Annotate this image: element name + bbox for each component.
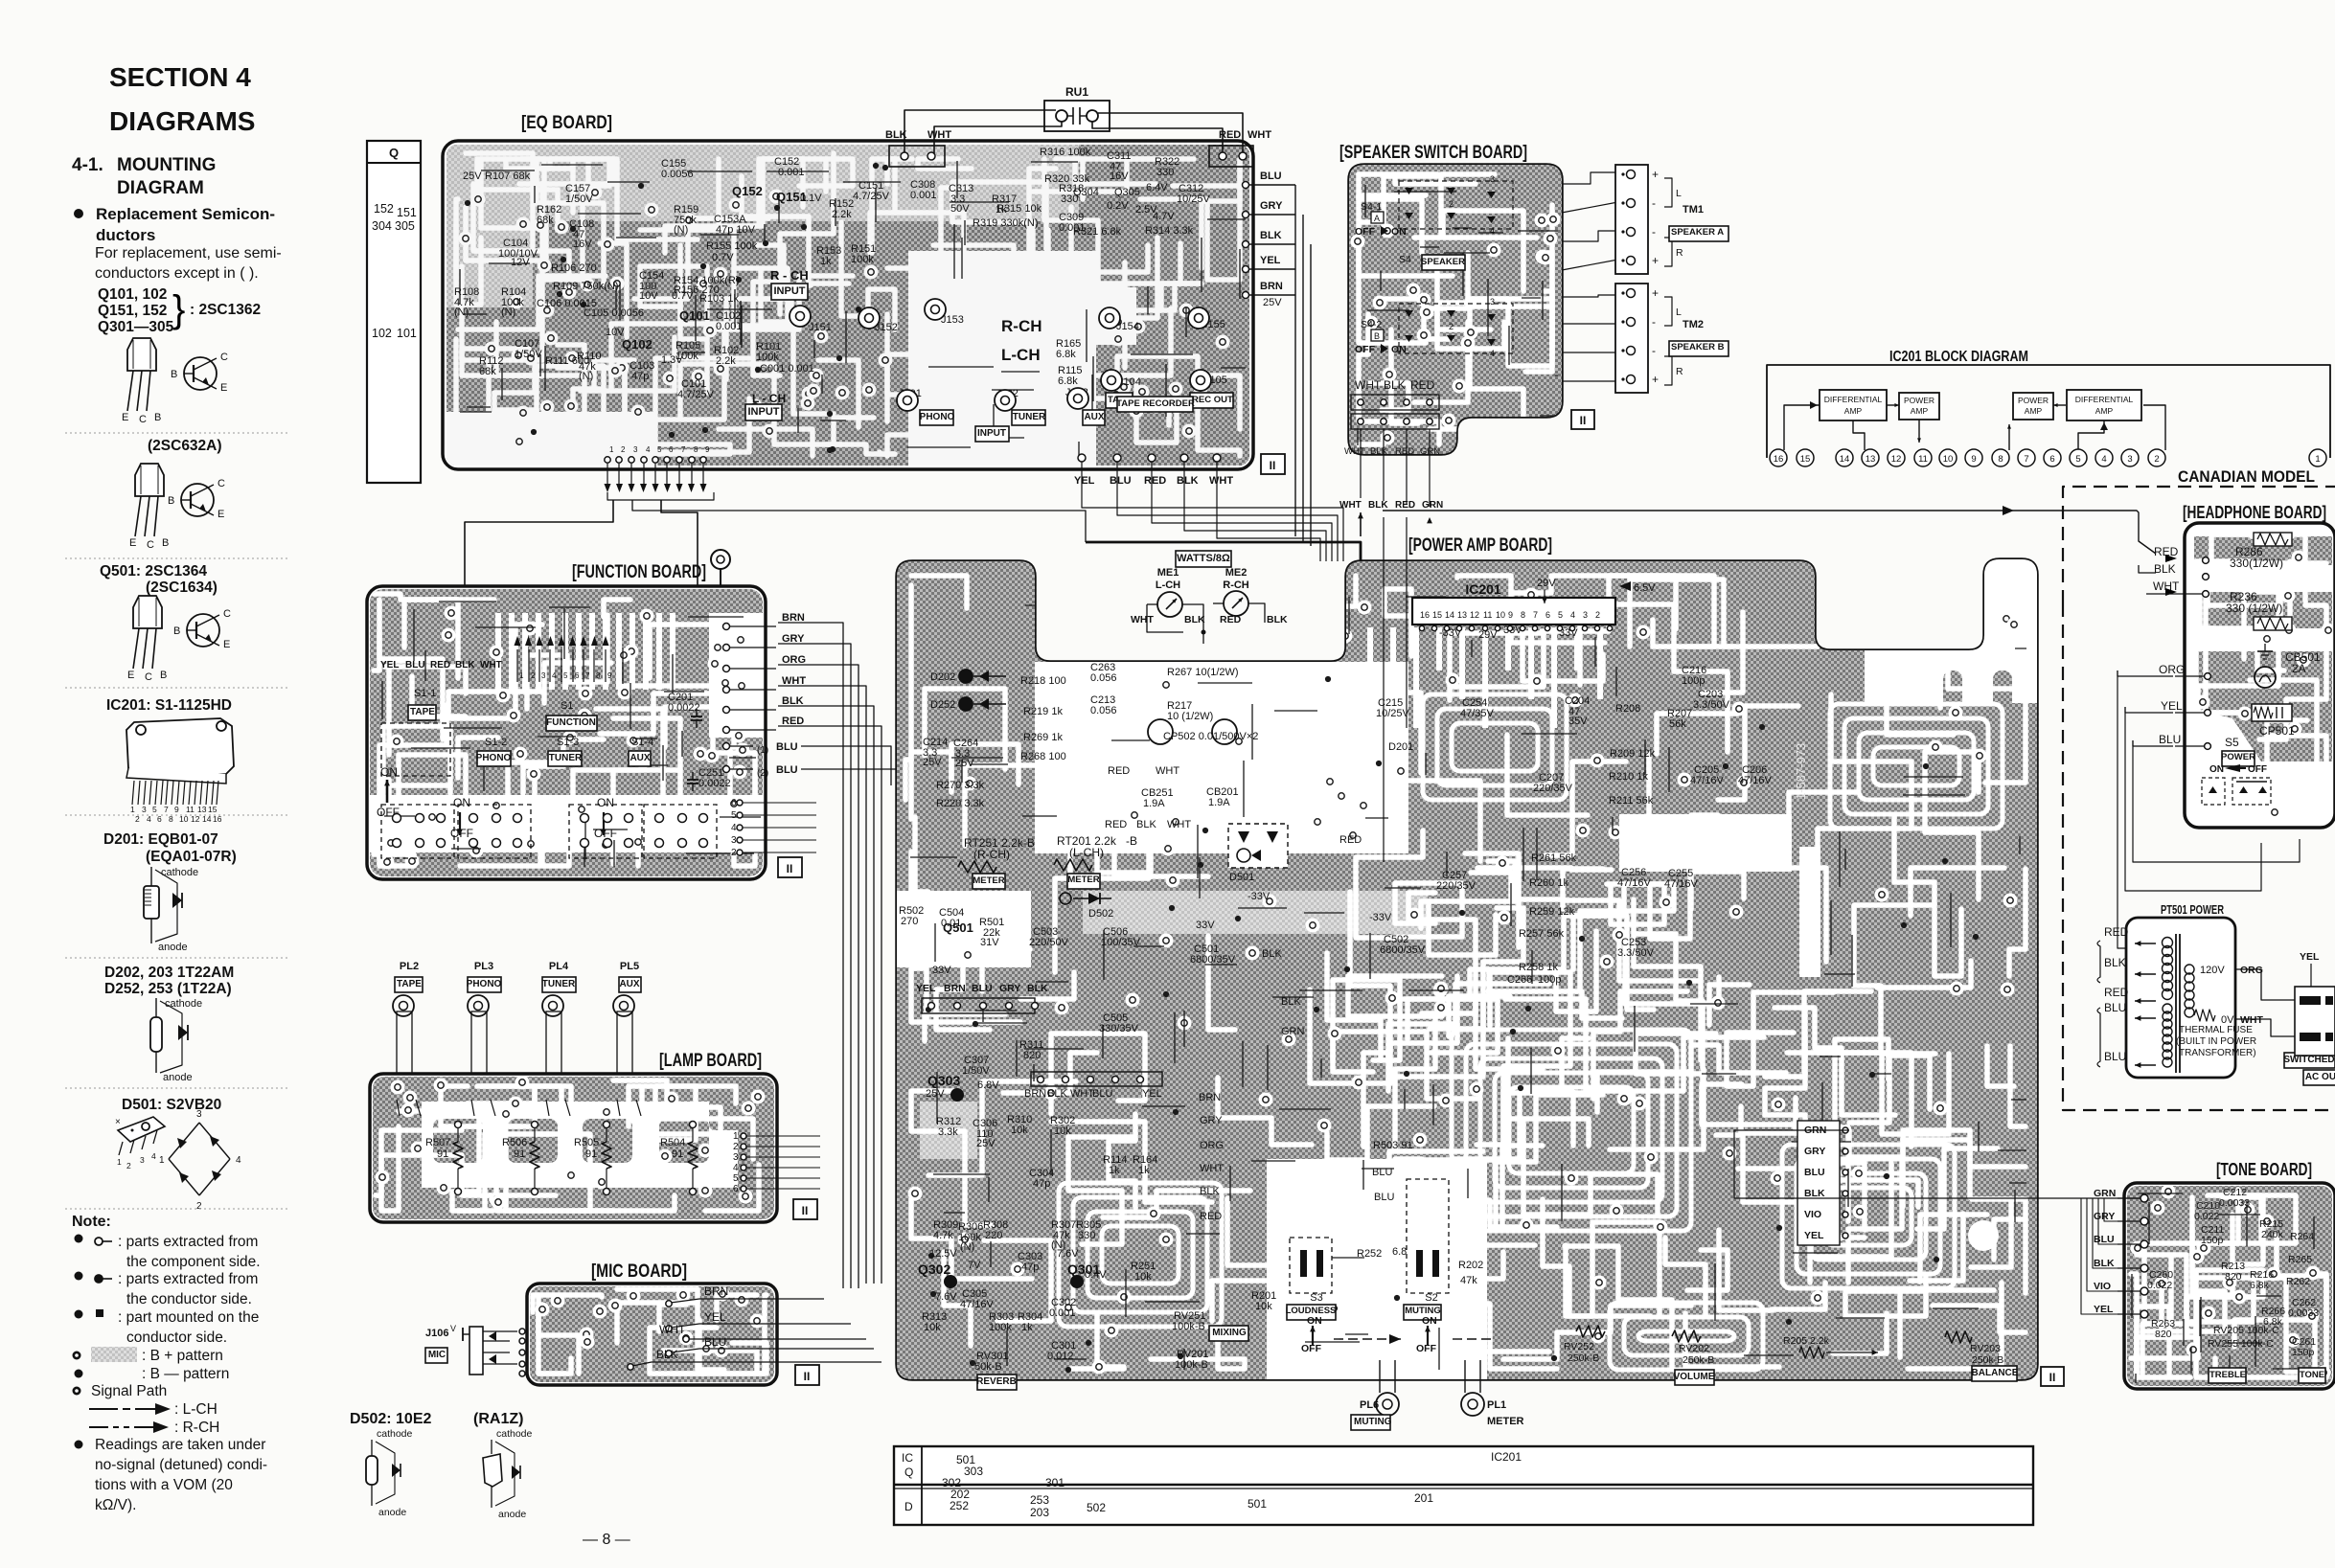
differential amp block 1 [1820,390,1887,420]
svg-text:II: II [804,1370,811,1383]
svg-text:BLU: BLU [2104,1001,2126,1014]
svg-text:RV255 100k-C: RV255 100k-C [2208,1338,2274,1350]
svg-text:(2SC1634): (2SC1634) [146,579,217,596]
svg-text:E: E [127,670,134,681]
function board switch S1-2 PHONO [476,737,512,766]
svg-text:14: 14 [1840,454,1850,465]
svg-text:C: C [223,608,231,620]
svg-text:R315 10k: R315 10k [996,203,1042,215]
svg-text:R-CH: R-CH [1223,579,1249,591]
svg-text:8: 8 [596,671,601,680]
svg-text:9: 9 [1508,610,1513,620]
svg-text:0.001: 0.001 [778,167,805,178]
svg-text:1: 1 [733,1131,739,1142]
svg-text:YEL: YEL [1142,1088,1162,1100]
svg-text:conductors except in ( ).: conductors except in ( ). [95,265,259,282]
svg-text:the conductor side.: the conductor side. [126,1291,252,1307]
svg-text:GRY: GRY [1260,200,1283,212]
svg-text:L-CH: L-CH [1156,579,1180,591]
EQ board copper pattern [446,145,1249,466]
svg-text:R268 100: R268 100 [1020,751,1066,762]
speaker switch board title [1339,143,1527,163]
wire power amp to tone board GRN [1734,1130,1849,1198]
power transformer labels [2176,965,2263,1058]
svg-text:13: 13 [197,805,207,814]
svg-text:TAPE: TAPE [397,979,422,989]
mic board copper pattern [530,1286,774,1382]
svg-text:330: 330 [1078,1230,1095,1241]
svg-text:4: 4 [236,1155,241,1166]
svg-text:E: E [223,639,230,650]
svg-text:AMP: AMP [1911,406,1929,416]
svg-text:5: 5 [563,671,568,680]
svg-text:cathode: cathode [496,1428,533,1440]
function board II mark [778,857,802,877]
svg-text:BRN: BRN [782,612,805,624]
svg-text:PT501 POWER: PT501 POWER [2161,902,2224,917]
svg-text:12.5V: 12.5V [929,1248,957,1260]
svg-text:68k: 68k [537,215,554,226]
IC201 S1-1125HD label [106,697,232,714]
svg-text:502: 502 [1087,1501,1106,1514]
transistor package drawing 2SC632A [129,464,225,551]
svg-text:25V: 25V [976,1138,996,1149]
svg-text:1: 1 [2315,454,2320,465]
svg-text:PHONO: PHONO [920,412,955,422]
svg-text:OFF: OFF [1355,226,1376,238]
svg-text:INPUT: INPUT [774,285,806,297]
svg-text:7: 7 [1533,610,1538,620]
svg-text:IC: IC [902,1451,913,1465]
svg-text:OFF: OFF [594,827,617,840]
svg-text:L: L [1676,188,1682,199]
svg-text:D201: EQB01-07: D201: EQB01-07 [103,831,218,848]
svg-text:C: C [147,539,154,551]
svg-text:47/16V: 47/16V [1738,775,1773,786]
svg-text:: L-CH: : L-CH [174,1401,217,1418]
svg-text:B: B [160,670,167,681]
svg-text:(N): (N) [579,371,593,382]
svg-text:330: 330 [1156,167,1174,178]
svg-text:3: 3 [633,445,638,454]
svg-text:POWER: POWER [2221,752,2255,762]
svg-text:0.056: 0.056 [1090,705,1117,716]
svg-text:PL1: PL1 [1487,1399,1506,1411]
svg-text:BLU: BLU [776,764,798,776]
speaker switch bottom wires [1339,429,1443,862]
svg-text:0.0033: 0.0033 [2219,1197,2250,1209]
svg-text:D: D [904,1500,913,1513]
svg-text:D502: 10E2: D502: 10E2 [350,1411,431,1427]
svg-text:RV252: RV252 [1564,1341,1594,1352]
svg-text:RU1: RU1 [1065,85,1088,99]
svg-text:BLK: BLK [2154,562,2176,576]
speaker switch board outline [1349,165,1562,454]
svg-text:5: 5 [1558,610,1563,620]
svg-text:25V: 25V [923,757,942,768]
RU1 component [1044,85,1110,131]
svg-text:0.0033: 0.0033 [2288,1307,2319,1319]
svg-text:C266: C266 [1507,974,1532,986]
svg-text:RED: RED [430,660,450,670]
svg-text:4.7/25V: 4.7/25V [677,389,715,400]
svg-text:E: E [220,382,227,394]
transistor Q501 label [100,563,217,596]
svg-text:3: 3 [1490,297,1495,307]
svg-text:TREBLE: TREBLE [2209,1370,2246,1380]
svg-text:BLK: BLK [1260,230,1282,241]
svg-text:BLK: BLK [1184,614,1205,625]
svg-text:1k: 1k [1021,1322,1033,1333]
svg-text:ORG: ORG [2159,663,2185,676]
svg-text:10V: 10V [639,290,658,302]
svg-text:6.8V: 6.8V [977,1079,999,1091]
svg-text:(N): (N) [960,1241,974,1253]
svg-text:10k: 10k [1011,1125,1028,1136]
svg-text:(2SC632A): (2SC632A) [148,438,222,454]
svg-text:2: 2 [1449,199,1454,209]
svg-text:250k-B: 250k-B [1683,1354,1714,1366]
svg-text:RED: RED [1105,819,1127,830]
svg-text:S2: S2 [1425,1292,1437,1304]
svg-text:BRN: BRN [944,983,966,994]
function board switch S1-1 TAPE [381,688,450,776]
svg-text:[TONE BOARD]: [TONE BOARD] [2216,1160,2312,1179]
svg-text:10: 10 [1496,610,1505,620]
svg-text:3: 3 [541,671,546,680]
svg-text:4: 4 [1490,349,1495,358]
svg-text:3.3k: 3.3k [938,1126,958,1138]
svg-text:68k: 68k [479,366,496,377]
svg-text:BLK: BLK [1370,446,1388,457]
speaker switch S4 SPEAKER label [1399,254,1465,270]
svg-text:(BUILT IN POWER: (BUILT IN POWER [2176,1036,2256,1047]
svg-text:4: 4 [646,445,651,454]
svg-text:33V: 33V [932,965,951,976]
svg-text:Q152: Q152 [732,184,763,198]
svg-text:2: 2 [731,848,737,858]
svg-text:ON: ON [453,796,470,809]
svg-text:BLK: BLK [1804,1188,1825,1199]
svg-text:[SPEAKER SWITCH BOARD]: [SPEAKER SWITCH BOARD] [1339,143,1527,163]
svg-text:BLU: BLU [2094,1234,2115,1245]
svg-text:BLK: BLK [2104,956,2126,969]
EQ board outline [443,141,1253,469]
svg-text:BLK: BLK [1267,614,1288,625]
svg-text:GRY: GRY [1200,1115,1223,1126]
svg-text:PL4: PL4 [549,961,569,972]
power amp lower left labels [918,1039,1483,1373]
svg-text:2: 2 [531,671,536,680]
svg-text:PL2: PL2 [400,961,419,972]
IC201 block diagram frame [1767,365,2330,458]
power amp II mark [2041,1367,2064,1386]
function board right wire labels [723,612,900,1288]
svg-text:152: 152 [374,202,394,216]
speaker switch II mark [1571,410,1594,429]
svg-text:SPEAKER A: SPEAKER A [1671,227,1724,238]
svg-text:DIAGRAMS: DIAGRAMS [109,106,255,136]
svg-text:WHT: WHT [1248,129,1271,141]
svg-text:5: 5 [731,810,737,821]
svg-text:}: } [172,288,185,330]
svg-text:220/50V: 220/50V [1029,937,1069,948]
power transformer lead wires [2097,925,2156,1068]
svg-text:R270 3.3k: R270 3.3k [936,780,985,791]
svg-text:R-CH: R-CH [1001,317,1042,335]
speaker switch bottom labels [1344,378,1440,457]
svg-text:R506: R506 [502,1137,527,1148]
svg-text:Q305: Q305 [1114,187,1140,198]
svg-text:0.7V: 0.7V [672,290,694,302]
svg-text:TONE: TONE [2300,1370,2324,1380]
svg-text:BLK: BLK [1368,500,1388,511]
svg-text:RED: RED [2104,925,2129,939]
svg-text:E: E [122,412,128,423]
svg-text:RED: RED [1410,378,1435,392]
svg-text:501: 501 [1248,1497,1267,1511]
headphone board circuit breaker CB501 [2255,644,2321,688]
svg-text:9: 9 [607,671,612,680]
transistor package drawing 2SC1364 [127,596,231,683]
svg-text:820: 820 [2225,1271,2242,1283]
svg-text:ductors: ductors [96,226,155,244]
svg-text:301: 301 [1045,1476,1064,1489]
svg-text:[MIC BOARD]: [MIC BOARD] [591,1261,687,1282]
svg-text:TM1: TM1 [1683,204,1704,216]
svg-text:E: E [217,509,224,520]
EQ board right side wire labels [1243,170,1312,546]
svg-text:the component side.: the component side. [126,1254,261,1270]
svg-text:201: 201 [1414,1491,1433,1505]
svg-text:D202: D202 [930,671,955,683]
svg-text:ORG: ORG [1200,1140,1224,1151]
svg-text:BRN: BRN [704,1284,728,1298]
svg-text:BRN: BRN [1260,281,1283,292]
svg-text:MUTING: MUTING [1354,1417,1392,1427]
svg-text:R314 3.3k: R314 3.3k [1145,225,1194,237]
svg-text:Q101, 102: Q101, 102 [98,286,167,303]
signal path arrows bottom [1334,1334,1495,1344]
transistor list Q101-Q305 2SC1362 [98,286,261,335]
svg-text:220/35V: 220/35V [1436,880,1477,892]
svg-text:ME1: ME1 [1157,567,1179,579]
svg-text:YEL: YEL [380,660,399,670]
svg-text:WHT: WHT [1200,1163,1224,1174]
diode D201 label [103,831,237,865]
function board ON OFF labels [377,765,617,840]
svg-text:THERMAL FUSE: THERMAL FUSE [2179,1025,2253,1035]
svg-text:R504: R504 [660,1137,685,1148]
svg-text:R260 1k: R260 1k [1529,877,1568,889]
svg-text:1/50V: 1/50V [565,193,593,205]
svg-text:B: B [173,625,180,637]
bridge rectifier D501 label [122,1097,221,1113]
svg-text:R103 1k: R103 1k [699,293,739,305]
svg-text:4.7V: 4.7V [1153,211,1175,222]
speaker switch S4-2 [1355,304,1513,355]
svg-text:GRN: GRN [2094,1188,2116,1199]
svg-text:IC201 BLOCK DIAGRAM: IC201 BLOCK DIAGRAM [1889,349,2028,365]
svg-text:2: 2 [196,1201,202,1212]
svg-text:4: 4 [731,823,737,833]
svg-text:0.022: 0.022 [2147,1280,2172,1291]
svg-text:BLK: BLK [1384,378,1406,392]
svg-text:10k: 10k [924,1322,941,1333]
svg-text:6800/35V: 6800/35V [1190,954,1236,966]
EQ board bottom connector arrows [605,445,711,492]
svg-text:BLU: BLU [776,741,798,753]
svg-text:250k-B: 250k-B [1972,1354,2003,1366]
svg-text:Q151: Q151 [776,190,807,204]
IC201 block diagram title [1889,349,2028,365]
svg-text:12: 12 [1470,610,1479,620]
power amp RT201 meter trimmer [1054,834,1137,889]
svg-text:6: 6 [733,1184,739,1194]
svg-text:kΩ/V).: kΩ/V). [95,1497,136,1513]
svg-text:(R-CH): (R-CH) [973,848,1010,861]
svg-text:304: 304 [372,219,392,233]
svg-text:10/25V: 10/25V [1177,193,1211,205]
EQ board tape recorder bracket [1116,397,1195,412]
svg-text:R209 12k: R209 12k [1610,748,1656,760]
svg-text:BLK: BLK [1262,948,1282,960]
svg-text:DIAGRAM: DIAGRAM [117,178,204,198]
power amp part number text [1794,743,1808,800]
svg-text:10 (1/2W): 10 (1/2W) [1167,711,1213,722]
svg-text:BLU: BLU [1372,1167,1392,1178]
svg-text:R259 12k: R259 12k [1529,906,1575,918]
svg-text:GRY: GRY [782,633,805,645]
svg-text:4: 4 [552,671,557,680]
svg-text:WHT: WHT [1209,475,1233,487]
svg-text:5: 5 [657,445,662,454]
svg-text:VOLUME: VOLUME [1674,1372,1715,1382]
speaker switch contact marks [1405,174,1496,358]
EQ board II mark [1261,454,1285,474]
svg-text:820: 820 [2155,1329,2172,1340]
svg-text:B: B [162,537,169,549]
svg-text:50V: 50V [950,203,970,215]
svg-text:GRY: GRY [999,983,1020,994]
svg-text:GRN: GRN [1422,500,1443,511]
canadian model label [2178,467,2315,486]
svg-text:3: 3 [140,1155,145,1165]
svg-text:9: 9 [1971,454,1976,465]
svg-text:3.3/50V: 3.3/50V [1693,699,1730,711]
svg-text:OFF: OFF [2248,764,2267,775]
svg-text:BLK: BLK [1177,475,1199,487]
wire bus right of power amp [1289,479,2089,1110]
diode D502 drawing [366,1428,413,1518]
headphone board capacitor CP501 [2252,704,2295,738]
block diagram pin circles [1770,449,2326,466]
svg-text:47p: 47p [631,371,649,382]
svg-text:R210 1k: R210 1k [1609,771,1648,783]
svg-text:1.9A: 1.9A [1208,797,1230,808]
svg-text:-33V: -33V [1369,912,1392,923]
svg-text:DIFFERENTIAL: DIFFERENTIAL [1824,395,1883,404]
svg-text:B: B [171,369,177,380]
EQ board labels [454,147,1282,442]
svg-text:BLK: BLK [885,129,907,141]
svg-text:II: II [787,862,793,875]
svg-text:100/35V: 100/35V [1101,937,1141,948]
svg-text:: B — pattern: : B — pattern [142,1366,229,1382]
lamp board outline [370,1074,777,1222]
svg-text:WHT: WHT [480,660,502,670]
svg-text:Q303: Q303 [927,1073,960,1088]
svg-text:: B + pattern: : B + pattern [142,1348,223,1364]
svg-text:S4-2: S4-2 [1361,319,1382,330]
svg-text:YEL: YEL [1074,475,1095,487]
svg-text:-: - [1652,196,1656,210]
svg-text:INPUT: INPUT [748,406,780,418]
svg-text:11: 11 [186,805,195,814]
svg-text:D501: S2VB20: D501: S2VB20 [122,1097,221,1113]
power amp board outline [897,559,2037,1379]
svg-text:1-587-973: 1-587-973 [1794,743,1808,800]
svg-text:RV205 100k-C: RV205 100k-C [2213,1325,2279,1336]
svg-text:33V: 33V [1503,625,1522,636]
svg-text:0.7V: 0.7V [712,252,734,263]
svg-text:10k: 10k [1054,1125,1071,1137]
svg-text:4.7/25V: 4.7/25V [853,191,890,202]
svg-text:YEL: YEL [1260,255,1281,266]
svg-text:56k: 56k [1669,718,1686,730]
function board capacitor C251 [687,767,731,791]
svg-text:D501: D501 [1229,872,1254,883]
svg-text:BLU: BLU [1110,475,1132,487]
svg-text:D502: D502 [1088,908,1113,920]
subsection 4-1 heading [72,155,216,198]
power amp RV202 volume control [1672,1330,1715,1385]
svg-text:16: 16 [1774,454,1784,465]
svg-text:SPEAKER B: SPEAKER B [1671,342,1725,352]
svg-text:R269 1k: R269 1k [1023,732,1063,743]
svg-text:1k: 1k [1138,1165,1150,1176]
svg-text:MOUNTING: MOUNTING [117,155,216,175]
svg-text:DIFFERENTIAL: DIFFERENTIAL [2075,395,2134,404]
svg-text:S1-2: S1-2 [485,737,507,748]
svg-text:WHT: WHT [1156,765,1179,777]
svg-text:6.8k: 6.8k [1058,375,1078,387]
svg-text:[LAMP BOARD]: [LAMP BOARD] [659,1051,762,1071]
svg-text:25V: 25V [1263,297,1282,308]
svg-text:29V: 29V [1537,578,1556,589]
svg-text:BLK: BLK [455,660,475,670]
svg-text:-: - [1652,225,1656,239]
power amp RT251 meter trimmer [958,836,1035,889]
svg-text:TUNER: TUNER [1013,412,1046,422]
svg-text:AMP: AMP [2025,406,2043,416]
svg-text:R252: R252 [1357,1248,1382,1260]
svg-text:0.001: 0.001 [1049,1307,1076,1319]
svg-text:WHT: WHT [1131,614,1154,625]
svg-text:15: 15 [1432,610,1442,620]
svg-text:(EQA01-07R): (EQA01-07R) [146,849,237,865]
svg-text:-B: -B [1126,834,1137,848]
svg-text:-: - [1652,315,1656,329]
svg-text:4: 4 [1570,610,1575,620]
svg-text:1: 1 [117,1157,122,1167]
svg-text:WHT: WHT [1339,500,1362,511]
svg-text:RED: RED [1144,475,1166,487]
svg-text:91: 91 [585,1148,597,1160]
svg-text:C: C [220,352,228,363]
power amp board title [1408,535,1552,556]
function board switch S1-3 TUNER [548,737,583,766]
